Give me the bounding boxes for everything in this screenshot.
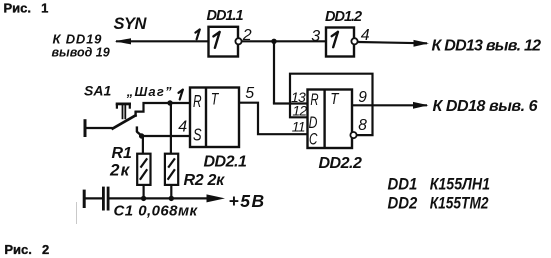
- svg-text:SYN: SYN: [114, 15, 148, 33]
- svg-text:R: R: [193, 91, 202, 111]
- plate: [107, 187, 110, 211]
- actuator rod: [124, 104, 126, 119]
- flip-flop DD2.2: [308, 90, 357, 149]
- wire: [143, 185, 145, 199]
- resistor R1: [137, 154, 150, 199]
- wire +5V rail: [110, 197, 213, 199]
- wire R1 pullup vertical: [142, 136, 144, 154]
- wire DD1.2 output to K DD13: [358, 42, 427, 43]
- pin 1: [179, 90, 183, 100]
- upper contact: [134, 111, 136, 117]
- svg-text:4: 4: [178, 119, 187, 136]
- wire: [115, 38, 131, 44]
- svg-text:12: 12: [292, 103, 307, 119]
- wire: [273, 41, 275, 103]
- switch arm: [112, 115, 137, 129]
- node: S row junction to R1: [139, 133, 144, 138]
- svg-text:DD2.1: DD2.1: [204, 154, 247, 171]
- wire: [170, 185, 172, 199]
- svg-text:+5В: +5В: [229, 191, 266, 211]
- wire arrowhead +5V: [207, 194, 226, 202]
- wire Q output 9 to K DD18: [352, 104, 427, 106]
- svg-text:R: R: [310, 91, 318, 109]
- gate symbol 1: [213, 32, 219, 48]
- node: [141, 196, 146, 201]
- svg-text:5: 5: [245, 85, 254, 102]
- svg-text:T: T: [330, 91, 340, 108]
- pin 1: [195, 30, 199, 40]
- svg-text:2: 2: [242, 27, 252, 44]
- wire: [273, 102, 308, 104]
- wire DD2.1 output 5 to DD2.2 C input: [239, 103, 308, 135]
- inverter gate DD1.1: [209, 27, 242, 57]
- wire: [414, 40, 430, 47]
- svg-text:9: 9: [358, 89, 367, 106]
- svg-text:4: 4: [361, 27, 370, 44]
- gate symbol 1: [332, 32, 338, 47]
- svg-text:Рис. 1: Рис. 1: [4, 0, 49, 15]
- wire step to R row: [135, 103, 191, 112]
- svg-text:C: C: [309, 130, 318, 149]
- svg-text:К DD18 выв. 6: К DD18 выв. 6: [433, 98, 538, 115]
- inverter gate DD1.2: [326, 28, 358, 57]
- svg-text:DD1.2: DD1.2: [325, 9, 362, 25]
- actuator bar end tick: [129, 104, 131, 109]
- wire: [86, 127, 113, 129]
- flip-flop DD2.1: [190, 88, 239, 148]
- wire: [85, 197, 102, 199]
- svg-text:вывод 19: вывод 19: [52, 45, 110, 59]
- svg-text:К DD13 выв. 12: К DD13 выв. 12: [432, 38, 542, 55]
- wire: [413, 102, 429, 109]
- svg-text:DD1К155ЛН1: DD1К155ЛН1: [388, 176, 491, 194]
- svg-text:R1: R1: [112, 145, 133, 162]
- svg-text:2к: 2к: [109, 160, 131, 179]
- plate: [102, 187, 105, 211]
- left terminal bar: [84, 119, 87, 137]
- svg-text:S: S: [193, 125, 202, 145]
- left terminal bar: [83, 190, 86, 208]
- svg-text:DD2К155ТМ2: DD2К155ТМ2: [388, 195, 489, 213]
- lower contact: [136, 126, 138, 132]
- wire R2 pullup vertical: [170, 103, 172, 154]
- svg-text:DD2.2: DD2.2: [319, 155, 362, 172]
- node A : junction at DD1.1 output: [241, 39, 326, 104]
- svg-text:С1 0,068мк: С1 0,068мк: [114, 203, 199, 220]
- resistor R2: [165, 154, 178, 199]
- wire S row to DD2.1: [142, 135, 190, 137]
- capacitor C1: [84, 187, 108, 211]
- scan artifact line: [76, 202, 78, 224]
- svg-text:SA1: SA1: [84, 83, 111, 99]
- actuator bar end tick: [116, 104, 118, 109]
- pushbutton SA1: [85, 103, 190, 137]
- wire feedback /Q to D: [290, 74, 373, 135]
- wire: [137, 132, 142, 136]
- svg-text:DD1.1: DD1.1: [207, 8, 244, 24]
- svg-text:3: 3: [311, 28, 320, 45]
- wire SYN output to K DD19: [116, 40, 209, 42]
- wire: [241, 40, 326, 42]
- svg-text:8: 8: [358, 117, 367, 134]
- svg-text:„Шаг”: „Шаг”: [126, 84, 173, 99]
- svg-text:T: T: [211, 90, 220, 108]
- actuator bar: [116, 103, 131, 106]
- svg-text:Рис. 2: Рис. 2: [4, 242, 49, 257]
- actuator rod: [122, 104, 124, 119]
- svg-text:11: 11: [292, 118, 305, 134]
- node: [169, 196, 174, 201]
- node: R row junction to R2: [167, 100, 172, 105]
- svg-text:R2 2к: R2 2к: [184, 172, 226, 189]
